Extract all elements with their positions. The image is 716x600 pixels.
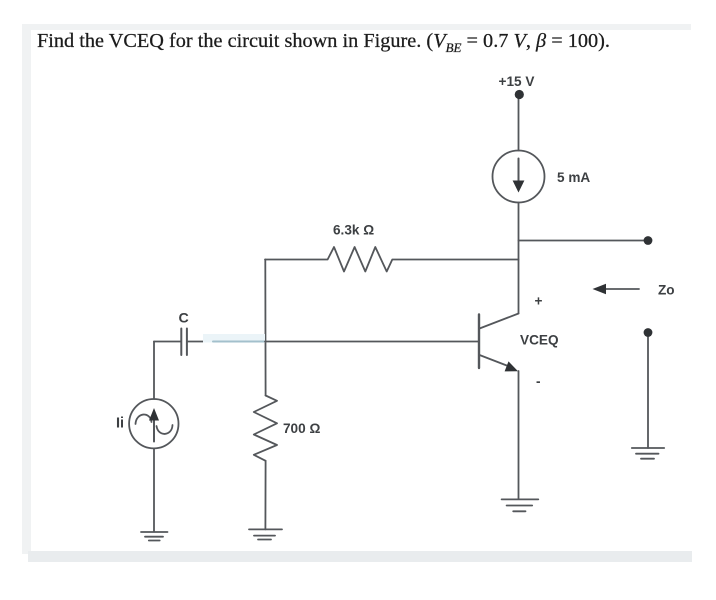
- svg-text:-: -: [536, 374, 541, 389]
- svg-text:5 mA: 5 mA: [557, 170, 590, 185]
- svg-text:+: +: [535, 294, 543, 309]
- svg-text:Ii: Ii: [116, 416, 124, 432]
- svg-text:C: C: [179, 311, 189, 327]
- svg-text:6.3k Ω: 6.3k Ω: [333, 223, 374, 238]
- svg-text:Zo: Zo: [658, 283, 675, 298]
- svg-text:VCEQ: VCEQ: [520, 333, 559, 348]
- svg-text:700 Ω: 700 Ω: [283, 421, 320, 436]
- svg-text:+15 V: +15 V: [499, 74, 535, 89]
